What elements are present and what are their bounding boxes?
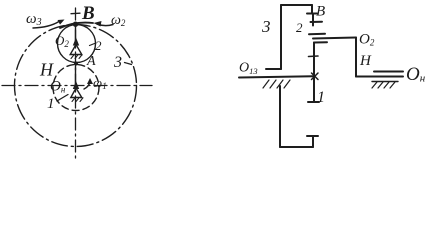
svg-text:B: B (316, 4, 325, 20)
svg-text:O2: O2 (55, 33, 69, 49)
svg-text:B: B (81, 3, 95, 24)
svg-text:2: 2 (95, 38, 102, 53)
svg-text:H: H (359, 53, 372, 69)
svg-text:ω2: ω2 (111, 13, 126, 28)
svg-text:ω3: ω3 (26, 11, 42, 28)
svg-text:O2: O2 (359, 32, 375, 48)
svg-text:H: H (39, 60, 54, 80)
svg-text:2: 2 (296, 20, 303, 35)
svg-text:Oн: Oн (406, 64, 426, 85)
svg-text:1: 1 (47, 96, 55, 112)
svg-text:O13: O13 (239, 61, 258, 77)
svg-text:1: 1 (317, 89, 325, 106)
svg-text:3: 3 (113, 54, 122, 71)
svg-text:3: 3 (261, 17, 271, 36)
svg-text:Oн: Oн (50, 79, 66, 95)
svg-text:ω1: ω1 (93, 75, 107, 91)
svg-text:A: A (86, 54, 96, 69)
